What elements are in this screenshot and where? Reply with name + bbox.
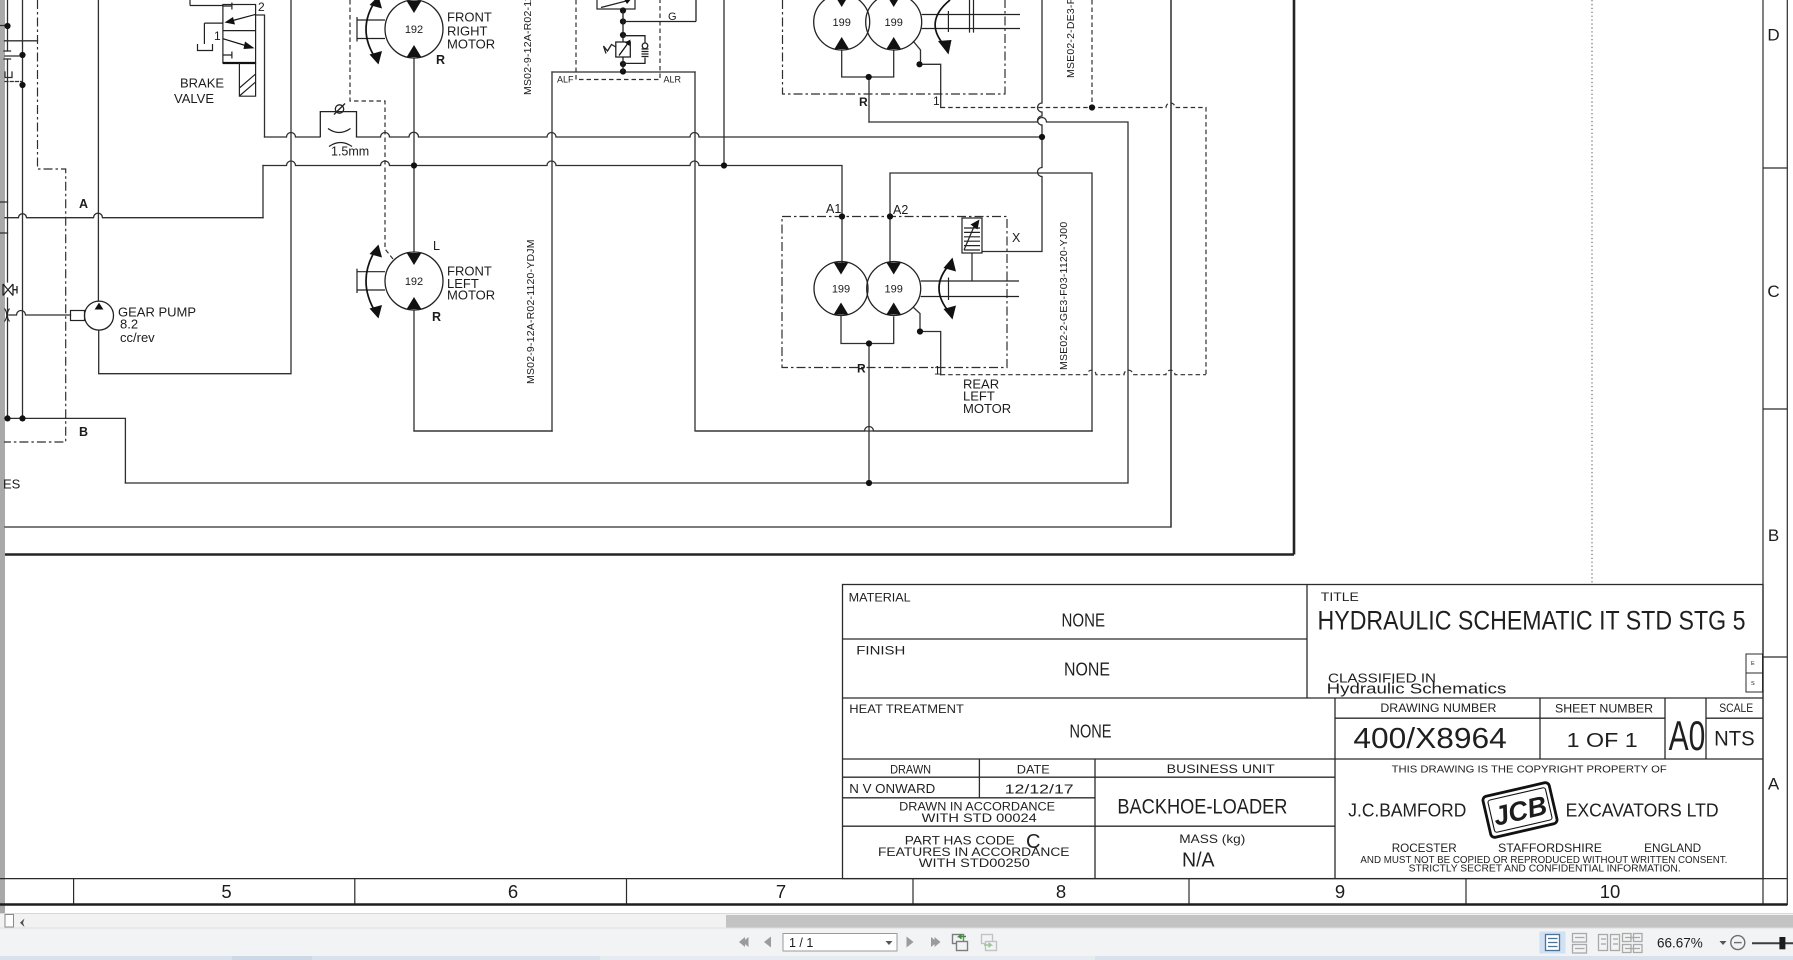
svg-text:R: R bbox=[436, 53, 445, 67]
svg-text:199: 199 bbox=[833, 17, 851, 29]
toolbar background bbox=[0, 928, 1793, 956]
svg-text:B: B bbox=[1768, 526, 1779, 545]
svg-text:B: B bbox=[79, 425, 88, 439]
junction node (1042,137) bbox=[1039, 134, 1045, 140]
svg-text:L: L bbox=[433, 239, 440, 253]
JCB logo bbox=[1482, 782, 1558, 838]
wire: pump suction line bbox=[9, 311, 71, 315]
svg-text:NONE: NONE bbox=[1064, 659, 1110, 680]
sheet bottom zone strip bbox=[0, 879, 1787, 905]
junction node (890,216.5) bbox=[887, 213, 893, 219]
junction node (7.5,418.4) bbox=[4, 415, 10, 421]
wire: ALF box left port bbox=[551, 72, 553, 431]
junction node (623,21.5) bbox=[620, 18, 626, 24]
gear pump P1 bbox=[85, 301, 114, 330]
junction node (868.7,77) bbox=[866, 74, 872, 80]
svg-text:STRICTLY SECRET AND CONFIDENTI: STRICTLY SECRET AND CONFIDENTIAL INFORMA… bbox=[1409, 864, 1681, 875]
svg-text:A1: A1 bbox=[826, 202, 841, 216]
swivel arc rear right bbox=[935, 0, 950, 46]
svg-text:ALF: ALF bbox=[557, 75, 574, 85]
toolbar: last-page button bbox=[931, 937, 941, 947]
svg-text:X: X bbox=[1012, 231, 1021, 245]
wire: main return line bbox=[125, 118, 1128, 484]
brake valve arrows bbox=[231, 14, 256, 21]
shaft of front left motor bbox=[357, 269, 385, 293]
wire: pilot line from top to pump loop bbox=[99, 0, 291, 374]
svg-text:VALVE: VALVE bbox=[174, 91, 214, 106]
wire: left rail crossbar bbox=[5, 40, 38, 42]
svg-text:1: 1 bbox=[214, 29, 221, 43]
junction node (22.5,55) bbox=[19, 52, 25, 58]
toolbar: next-page button bbox=[907, 937, 914, 948]
solenoid pilot valve (cut at top) bbox=[597, 0, 635, 9]
wire: upper distribution line bbox=[265, 132, 1043, 137]
wire: rear motors R drop bbox=[868, 77, 870, 122]
toolbar: continuous layout icon bbox=[1573, 934, 1587, 954]
toolbar: zoom slider bbox=[1752, 942, 1793, 944]
svg-text:SCALE: SCALE bbox=[1719, 703, 1753, 715]
svg-text:cc/rev: cc/rev bbox=[120, 330, 155, 345]
dash-dot enclosure: gear pump box bbox=[4, 0, 66, 442]
toolbar: page number box bbox=[783, 934, 897, 952]
junction node (1092,107.5) bbox=[1089, 104, 1095, 110]
svg-text:2: 2 bbox=[258, 0, 265, 14]
motor rear left A: bottom flow arrow bbox=[834, 303, 849, 315]
motor rear left B: top flow arrow bbox=[886, 263, 901, 275]
svg-text:BUSINESS UNIT: BUSINESS UNIT bbox=[1167, 762, 1276, 776]
junction node (623,35) bbox=[620, 32, 626, 38]
svg-text:FINISH: FINISH bbox=[856, 644, 905, 658]
sheet border: right letter column bbox=[1763, 0, 1787, 905]
wire: brake valve port 2 drop bbox=[256, 15, 265, 137]
wire: rear motors port 1 link bbox=[914, 42, 941, 108]
shaft of rear right motors bbox=[922, 11, 1020, 32]
svg-text:MS02-9-12A-R02-1120-YDJM: MS02-9-12A-R02-1120-YDJM bbox=[525, 239, 537, 384]
wire: mid riser from top bbox=[723, 0, 725, 166]
dashed pilot: top right drop bbox=[1091, 0, 1093, 108]
svg-text:1: 1 bbox=[933, 94, 940, 108]
scrollbar left arrow bbox=[20, 919, 25, 928]
svg-text:192: 192 bbox=[405, 276, 423, 288]
svg-text:STAFFORDSHIRE: STAFFORDSHIRE bbox=[1498, 841, 1602, 855]
wire: right tall rail bbox=[1170, 0, 1172, 527]
toolbar: next-view icon (disabled) bbox=[982, 935, 997, 951]
svg-text:8: 8 bbox=[1056, 881, 1066, 902]
dash-dot enclosure: rear left motor box bbox=[782, 217, 1007, 368]
junction node (623,10.5) bbox=[620, 7, 626, 13]
bottom status strip bbox=[0, 956, 1793, 960]
viewer left gray margin strip bbox=[0, 0, 5, 914]
toolbar: continuous-facing layout icon bbox=[1623, 934, 1643, 953]
svg-text:C: C bbox=[1767, 282, 1779, 301]
svg-text:N V ONWARD: N V ONWARD bbox=[849, 782, 935, 796]
junction node (724,165.5) bbox=[721, 162, 727, 168]
wire: left rail 1 bbox=[7, 0, 9, 418]
wire: rear motors bottom link bbox=[842, 50, 894, 77]
svg-text:WITH STD 00024: WITH STD 00024 bbox=[922, 811, 1037, 825]
svg-text:N/A: N/A bbox=[1182, 850, 1215, 872]
svg-text:199: 199 bbox=[885, 17, 903, 29]
svg-text:A2: A2 bbox=[893, 203, 908, 217]
svg-text:6: 6 bbox=[508, 881, 518, 902]
junction node (22.5,418.4) bbox=[19, 415, 25, 421]
wire: line A bbox=[5, 213, 263, 218]
svg-text:R: R bbox=[432, 310, 441, 324]
pump suction coupling arcs bbox=[5, 309, 10, 322]
svg-text:HYDRAULIC SCHEMATIC IT STD STG: HYDRAULIC SCHEMATIC IT STD STG 5 bbox=[1318, 606, 1746, 636]
motor front right: bottom flow arrow bbox=[407, 45, 422, 57]
wire: ALF box right port bbox=[695, 72, 1092, 431]
svg-text:NTS: NTS bbox=[1714, 728, 1755, 751]
svg-text:MSE02-2-GE3-F03-1120-YJ00: MSE02-2-GE3-F03-1120-YJ00 bbox=[1058, 222, 1070, 370]
junction node (623,71.5) bbox=[620, 68, 626, 74]
rotation arrows front left bbox=[366, 249, 376, 313]
wire: under-motor bottom line bump bbox=[414, 427, 1092, 432]
scrollbar thumb bbox=[726, 915, 1793, 928]
svg-text:A: A bbox=[79, 197, 88, 211]
toolbar: first-page button bbox=[739, 937, 749, 947]
svg-text:MS02-9-12A-R02-112: MS02-9-12A-R02-112 bbox=[522, 0, 534, 95]
motor rear left B: circle bbox=[867, 262, 921, 316]
svg-text:7: 7 bbox=[776, 881, 786, 902]
sheet format mini-box bbox=[1746, 654, 1763, 692]
motor rear left A: circle bbox=[814, 262, 868, 316]
junction node (869,483) bbox=[866, 480, 872, 486]
motor rear right B: circle bbox=[866, 0, 922, 50]
svg-text:MATERIAL: MATERIAL bbox=[849, 591, 911, 605]
svg-text:12/12/17: 12/12/17 bbox=[1005, 783, 1074, 797]
dashed enclosure: relief valve box bbox=[576, 0, 660, 80]
svg-text:199: 199 bbox=[832, 284, 850, 296]
svg-text:ALR: ALR bbox=[664, 75, 682, 85]
svg-text:THIS DRAWING IS THE COPYRIGHT: THIS DRAWING IS THE COPYRIGHT PROPERTY O… bbox=[1392, 764, 1667, 776]
toolbar: facing layout icon bbox=[1599, 935, 1620, 951]
connector brackets on rail 1 bbox=[4, 51, 12, 78]
svg-text:E: E bbox=[1751, 661, 1755, 667]
motor front left: top flow arrow bbox=[407, 253, 422, 265]
svg-text:A0: A0 bbox=[1669, 712, 1706, 759]
coupling bars rear right bbox=[970, 0, 974, 33]
horizontal scrollbar track bbox=[0, 914, 1793, 928]
svg-text:D: D bbox=[1767, 26, 1779, 45]
svg-text:MSE02-2-DE3-F0: MSE02-2-DE3-F0 bbox=[1065, 0, 1077, 78]
wire: front motors feed bbox=[414, 58, 552, 431]
junction node (7.5,26) bbox=[4, 23, 10, 29]
motor front left: circle bbox=[385, 252, 443, 310]
svg-text:1: 1 bbox=[934, 364, 941, 378]
wire: ALF box top bbox=[552, 71, 695, 73]
svg-text:NONE: NONE bbox=[1062, 610, 1106, 631]
svg-text:DRAWING NUMBER: DRAWING NUMBER bbox=[1380, 703, 1496, 715]
scrollbar corner button bbox=[5, 915, 14, 928]
shaft of front right motor bbox=[357, 17, 385, 42]
orifice 1.5mm assembly bbox=[320, 104, 356, 147]
wire: left rail 2 bbox=[22, 0, 24, 418]
schematic inner frame line bbox=[5, 0, 1171, 527]
svg-text:MOTOR: MOTOR bbox=[447, 288, 495, 303]
relief valve assembly in dashed box bbox=[604, 0, 697, 72]
junction node (623,64) bbox=[620, 61, 626, 67]
svg-text:BRAKE: BRAKE bbox=[180, 76, 224, 91]
svg-text:NONE: NONE bbox=[1070, 721, 1112, 742]
svg-text:MASS (kg): MASS (kg) bbox=[1179, 832, 1245, 846]
wire: A riser to upper line bbox=[262, 166, 264, 218]
wire: line B bbox=[5, 418, 125, 483]
svg-text:R: R bbox=[857, 362, 866, 376]
svg-text:DRAWN: DRAWN bbox=[890, 763, 931, 777]
dashed pilot: front-right motor case drain bbox=[350, 0, 393, 259]
junction node (919.5,64.3) bbox=[916, 61, 922, 67]
rotation arrows front right bbox=[366, 0, 376, 59]
wire: rear-left port 1 link bbox=[914, 308, 941, 375]
junction node (22.5,85) bbox=[19, 82, 25, 88]
toolbar: previous-view icon bbox=[953, 935, 968, 951]
svg-text:BACKHOE-LOADER: BACKHOE-LOADER bbox=[1117, 796, 1287, 819]
toolbar: zoom out button bbox=[1731, 936, 1745, 950]
svg-text:SHEET NUMBER: SHEET NUMBER bbox=[1555, 704, 1653, 716]
motor rear right A: circle bbox=[814, 0, 870, 50]
shaft of rear left motors bbox=[921, 278, 1019, 301]
svg-text:400/X8964: 400/X8964 bbox=[1353, 723, 1507, 755]
title block grid bbox=[843, 585, 1764, 879]
svg-text:S: S bbox=[1751, 681, 1755, 687]
svg-text:HEAT TREATMENT: HEAT TREATMENT bbox=[849, 702, 964, 716]
svg-text:66.67%: 66.67% bbox=[1657, 936, 1703, 951]
schematic outer frame (thick) bbox=[5, 0, 1294, 555]
svg-text:1 OF 1: 1 OF 1 bbox=[1567, 730, 1638, 752]
wire: rear-left feed loop bbox=[890, 173, 1092, 431]
motor front right: circle bbox=[385, 0, 443, 58]
sheet fold mark dotted line bbox=[1591, 0, 1593, 584]
toolbar: prev-page button bbox=[764, 937, 771, 948]
svg-text:EXCAVATORS LTD: EXCAVATORS LTD bbox=[1566, 801, 1719, 821]
svg-text:5: 5 bbox=[221, 881, 231, 902]
svg-text:9: 9 bbox=[1335, 881, 1345, 902]
svg-text:ES: ES bbox=[3, 477, 21, 492]
svg-text:R: R bbox=[859, 95, 868, 109]
svg-text:A: A bbox=[1768, 775, 1780, 794]
swivel arc rear left bbox=[939, 264, 950, 313]
svg-text:TITLE: TITLE bbox=[1321, 592, 1359, 604]
svg-text:ENGLAND: ENGLAND bbox=[1644, 841, 1701, 855]
svg-text:DATE: DATE bbox=[1017, 763, 1050, 777]
svg-text:10: 10 bbox=[1600, 881, 1621, 902]
brake valve V1 bbox=[190, 0, 256, 63]
junction node (920,331.5) bbox=[917, 328, 923, 334]
motor rear right B: top flow arrow bbox=[886, 0, 901, 7]
junction node (869,343.5) bbox=[866, 340, 872, 346]
svg-text:G: G bbox=[668, 11, 677, 23]
stub wire to rail 2 bbox=[5, 55, 23, 57]
wire: lower distribution line bbox=[263, 161, 842, 262]
toolbar: single page layout (active) bbox=[1540, 932, 1566, 954]
svg-text:1 / 1: 1 / 1 bbox=[789, 936, 813, 950]
cut symbol ticks at page edge bbox=[0, 26, 8, 234]
wire: pump pressure riser bbox=[97, 0, 99, 301]
motor front right: top flow arrow bbox=[407, 1, 422, 13]
svg-text:J.C.BAMFORD: J.C.BAMFORD bbox=[1348, 801, 1466, 821]
brake release X assembly bbox=[962, 218, 982, 281]
dashed pilot: upper run bbox=[941, 103, 1206, 375]
junction node (842,216.5) bbox=[839, 213, 845, 219]
brake valve spring box bbox=[239, 63, 255, 96]
motor rear left A: top flow arrow bbox=[834, 263, 849, 275]
svg-text:ROCESTER: ROCESTER bbox=[1392, 841, 1457, 855]
svg-text:Hydraulic Schematics: Hydraulic Schematics bbox=[1327, 681, 1507, 698]
wire: rear-left R return drop bbox=[868, 344, 870, 484]
svg-text:1.5mm: 1.5mm bbox=[331, 145, 369, 159]
svg-text:MOTOR: MOTOR bbox=[447, 37, 495, 52]
dash-dot enclosure: rear right motor box bbox=[783, 0, 1006, 94]
svg-text:192: 192 bbox=[405, 24, 423, 36]
svg-text:WITH STD00250: WITH STD00250 bbox=[919, 856, 1030, 870]
motor rear left B: bottom flow arrow bbox=[886, 303, 901, 315]
dashed pilot: lower run bbox=[941, 370, 1206, 375]
svg-text:199: 199 bbox=[885, 284, 903, 296]
shut-off valve on left rail bbox=[3, 284, 17, 296]
wire: brake release riser bbox=[982, 0, 1042, 252]
motor rear right A: bottom flow arrow bbox=[834, 37, 849, 49]
motor front left: bottom flow arrow bbox=[407, 297, 422, 309]
svg-text:MOTOR: MOTOR bbox=[963, 401, 1011, 416]
motor rear right A: top flow arrow bbox=[834, 0, 849, 7]
wire: rear-left motors bottom link bbox=[841, 316, 894, 344]
motor rear right B: bottom flow arrow bbox=[886, 37, 901, 49]
junction node (414,165.5) bbox=[411, 162, 417, 168]
svg-text:FRONT: FRONT bbox=[447, 10, 492, 25]
